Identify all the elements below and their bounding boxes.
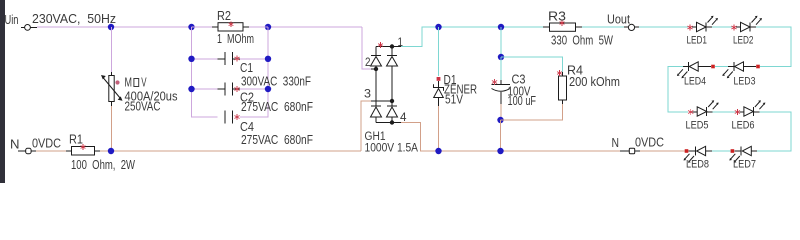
svg-text:330 Ohm 5W: 330 Ohm 5W [551, 33, 613, 47]
wire neutral rail [100, 150, 361, 152]
zener diode D1 [434, 73, 478, 107]
node junction C1 right [265, 56, 271, 62]
wire AC hot top rail [37, 26, 362, 28]
LED LED1 [687, 16, 719, 47]
wire C3 bottom [500, 104, 502, 120]
svg-text:V: V [141, 76, 147, 90]
wire LED5-LED6 [713, 111, 736, 113]
node N terminal left [10, 138, 36, 154]
resistor R3 [543, 9, 613, 47]
wire row3 to row4 [757, 112, 791, 151]
wire C2 row left [192, 88, 218, 90]
capacitor C1 [218, 52, 312, 89]
node bridge dot pin3 [390, 99, 394, 103]
wire DC+ from pin1 [401, 27, 550, 47]
wire R4 bottom feed [501, 104, 563, 120]
wire cap bank right rail [240, 27, 268, 117]
svg-text:1 MOhm: 1 MOhm [217, 32, 254, 46]
svg-text:275VAC 680nF: 275VAC 680nF [241, 133, 313, 147]
node N terminal right [612, 136, 641, 154]
svg-text:0VDC: 0VDC [32, 137, 61, 151]
wire D1 anode to rail [438, 106, 440, 151]
LED LED5 [686, 100, 719, 131]
svg-text:200 kOhm: 200 kOhm [569, 75, 620, 89]
resistor R2 [192, 9, 269, 46]
node junction D1 top [435, 24, 441, 30]
wire row1 to row2 [756, 27, 791, 67]
svg-text:3: 3 [364, 89, 371, 101]
svg-text:R2: R2 [217, 9, 231, 23]
node bridge dot pin2 [374, 67, 378, 71]
node junction C1 left [188, 56, 194, 62]
wire R4 top feed [501, 57, 563, 72]
wire C3 junction to rail [500, 120, 502, 151]
LED LED6 [732, 100, 766, 131]
svg-text:0VDC: 0VDC [635, 136, 664, 150]
svg-text:R3: R3 [548, 9, 566, 23]
node junction C (cap right rail top) [265, 24, 271, 30]
capacitor C2 [218, 83, 314, 115]
svg-text:LED4: LED4 [684, 76, 706, 88]
svg-text:LED8: LED8 [686, 159, 709, 171]
node junction C3 top rail [498, 24, 504, 30]
bridge rectifier GH1 [364, 37, 418, 154]
wire DC- from pin4 [401, 123, 627, 152]
node junction C2 right [265, 86, 271, 92]
svg-text:275VAC 680nF: 275VAC 680nF [241, 100, 313, 114]
svg-text:100 uF: 100 uF [508, 94, 537, 108]
wire Uout to LED1 [635, 26, 639, 28]
node junction C3/R4 [498, 54, 504, 60]
wire C1 row right [240, 58, 268, 60]
svg-text:GH1: GH1 [365, 131, 386, 143]
node junction D1 bottom [435, 148, 441, 154]
wire C3/R4 drop [500, 27, 502, 57]
svg-text:1: 1 [398, 37, 404, 49]
svg-text:100 Ohm, 2W: 100 Ohm, 2W [71, 158, 135, 172]
svg-text:LED5: LED5 [686, 120, 709, 132]
node bridge dot pin1 [390, 44, 394, 48]
node junction A (MOV top) [108, 24, 114, 30]
wire MOV column [111, 27, 113, 151]
wire LED3-LED4 [715, 66, 728, 68]
node junction B (cap left rail top) [188, 24, 194, 30]
svg-text:2: 2 [365, 57, 371, 69]
node Uout terminal [607, 13, 635, 31]
svg-text:C4: C4 [240, 120, 254, 134]
LED LED3 [722, 62, 760, 88]
resistor R4 [557, 64, 620, 105]
LED LED2 [731, 16, 762, 47]
node junction C3 bottom rail [497, 148, 503, 154]
svg-text:Uin: Uin [5, 13, 19, 27]
svg-text:M: M [125, 76, 133, 90]
svg-text:Uout: Uout [607, 13, 630, 27]
wire C1 row left [192, 58, 218, 60]
node bridge dot pin4 [390, 120, 394, 124]
capacitor C4 [225, 111, 313, 148]
wire R3 to Uout [582, 26, 624, 28]
wire N to LED8 [640, 150, 692, 152]
svg-text:N: N [10, 138, 20, 152]
svg-text:51V: 51V [445, 93, 464, 107]
wire LED1-LED2 [712, 26, 732, 28]
node junction C2 left [188, 86, 194, 92]
svg-text:R1: R1 [69, 133, 83, 147]
svg-text:1000V 1.5A: 1000V 1.5A [365, 142, 419, 154]
svg-text:LED3: LED3 [734, 76, 756, 88]
node junction neutral/MOV [108, 148, 114, 154]
svg-text:300VAC 330nF: 300VAC 330nF [241, 75, 311, 89]
wire C2 row right [240, 88, 268, 90]
svg-text:LED6: LED6 [732, 120, 755, 132]
svg-text:LED2: LED2 [733, 35, 754, 47]
node Uin terminal [5, 13, 38, 30]
svg-text:N: N [612, 136, 620, 150]
svg-text:LED7: LED7 [733, 159, 756, 171]
svg-text:C1: C1 [240, 61, 253, 75]
LED LED8 [684, 146, 713, 170]
wire neutral up to bridge pin 3 [361, 101, 371, 151]
node junction C3/R4 bottom [497, 117, 503, 123]
wire cap bank left rail [192, 27, 218, 117]
svg-text:230VAC, 50Hz: 230VAC, 50Hz [32, 12, 116, 26]
svg-text:LED1: LED1 [687, 35, 708, 47]
wire row2 to row3 [668, 67, 688, 113]
LED LED7 [729, 146, 757, 170]
LED LED4 [677, 62, 715, 88]
wire LED7-LED8 [712, 150, 730, 152]
wire neutral to R1 [36, 150, 66, 152]
wire D1 drop [438, 27, 440, 76]
svg-text:250VAC: 250VAC [125, 100, 161, 114]
resistor R1 [66, 133, 135, 173]
wire AC hot drop to bridge pin 2 [362, 27, 371, 69]
capacitor C3 [492, 57, 537, 108]
varistor MOV [101, 75, 178, 114]
